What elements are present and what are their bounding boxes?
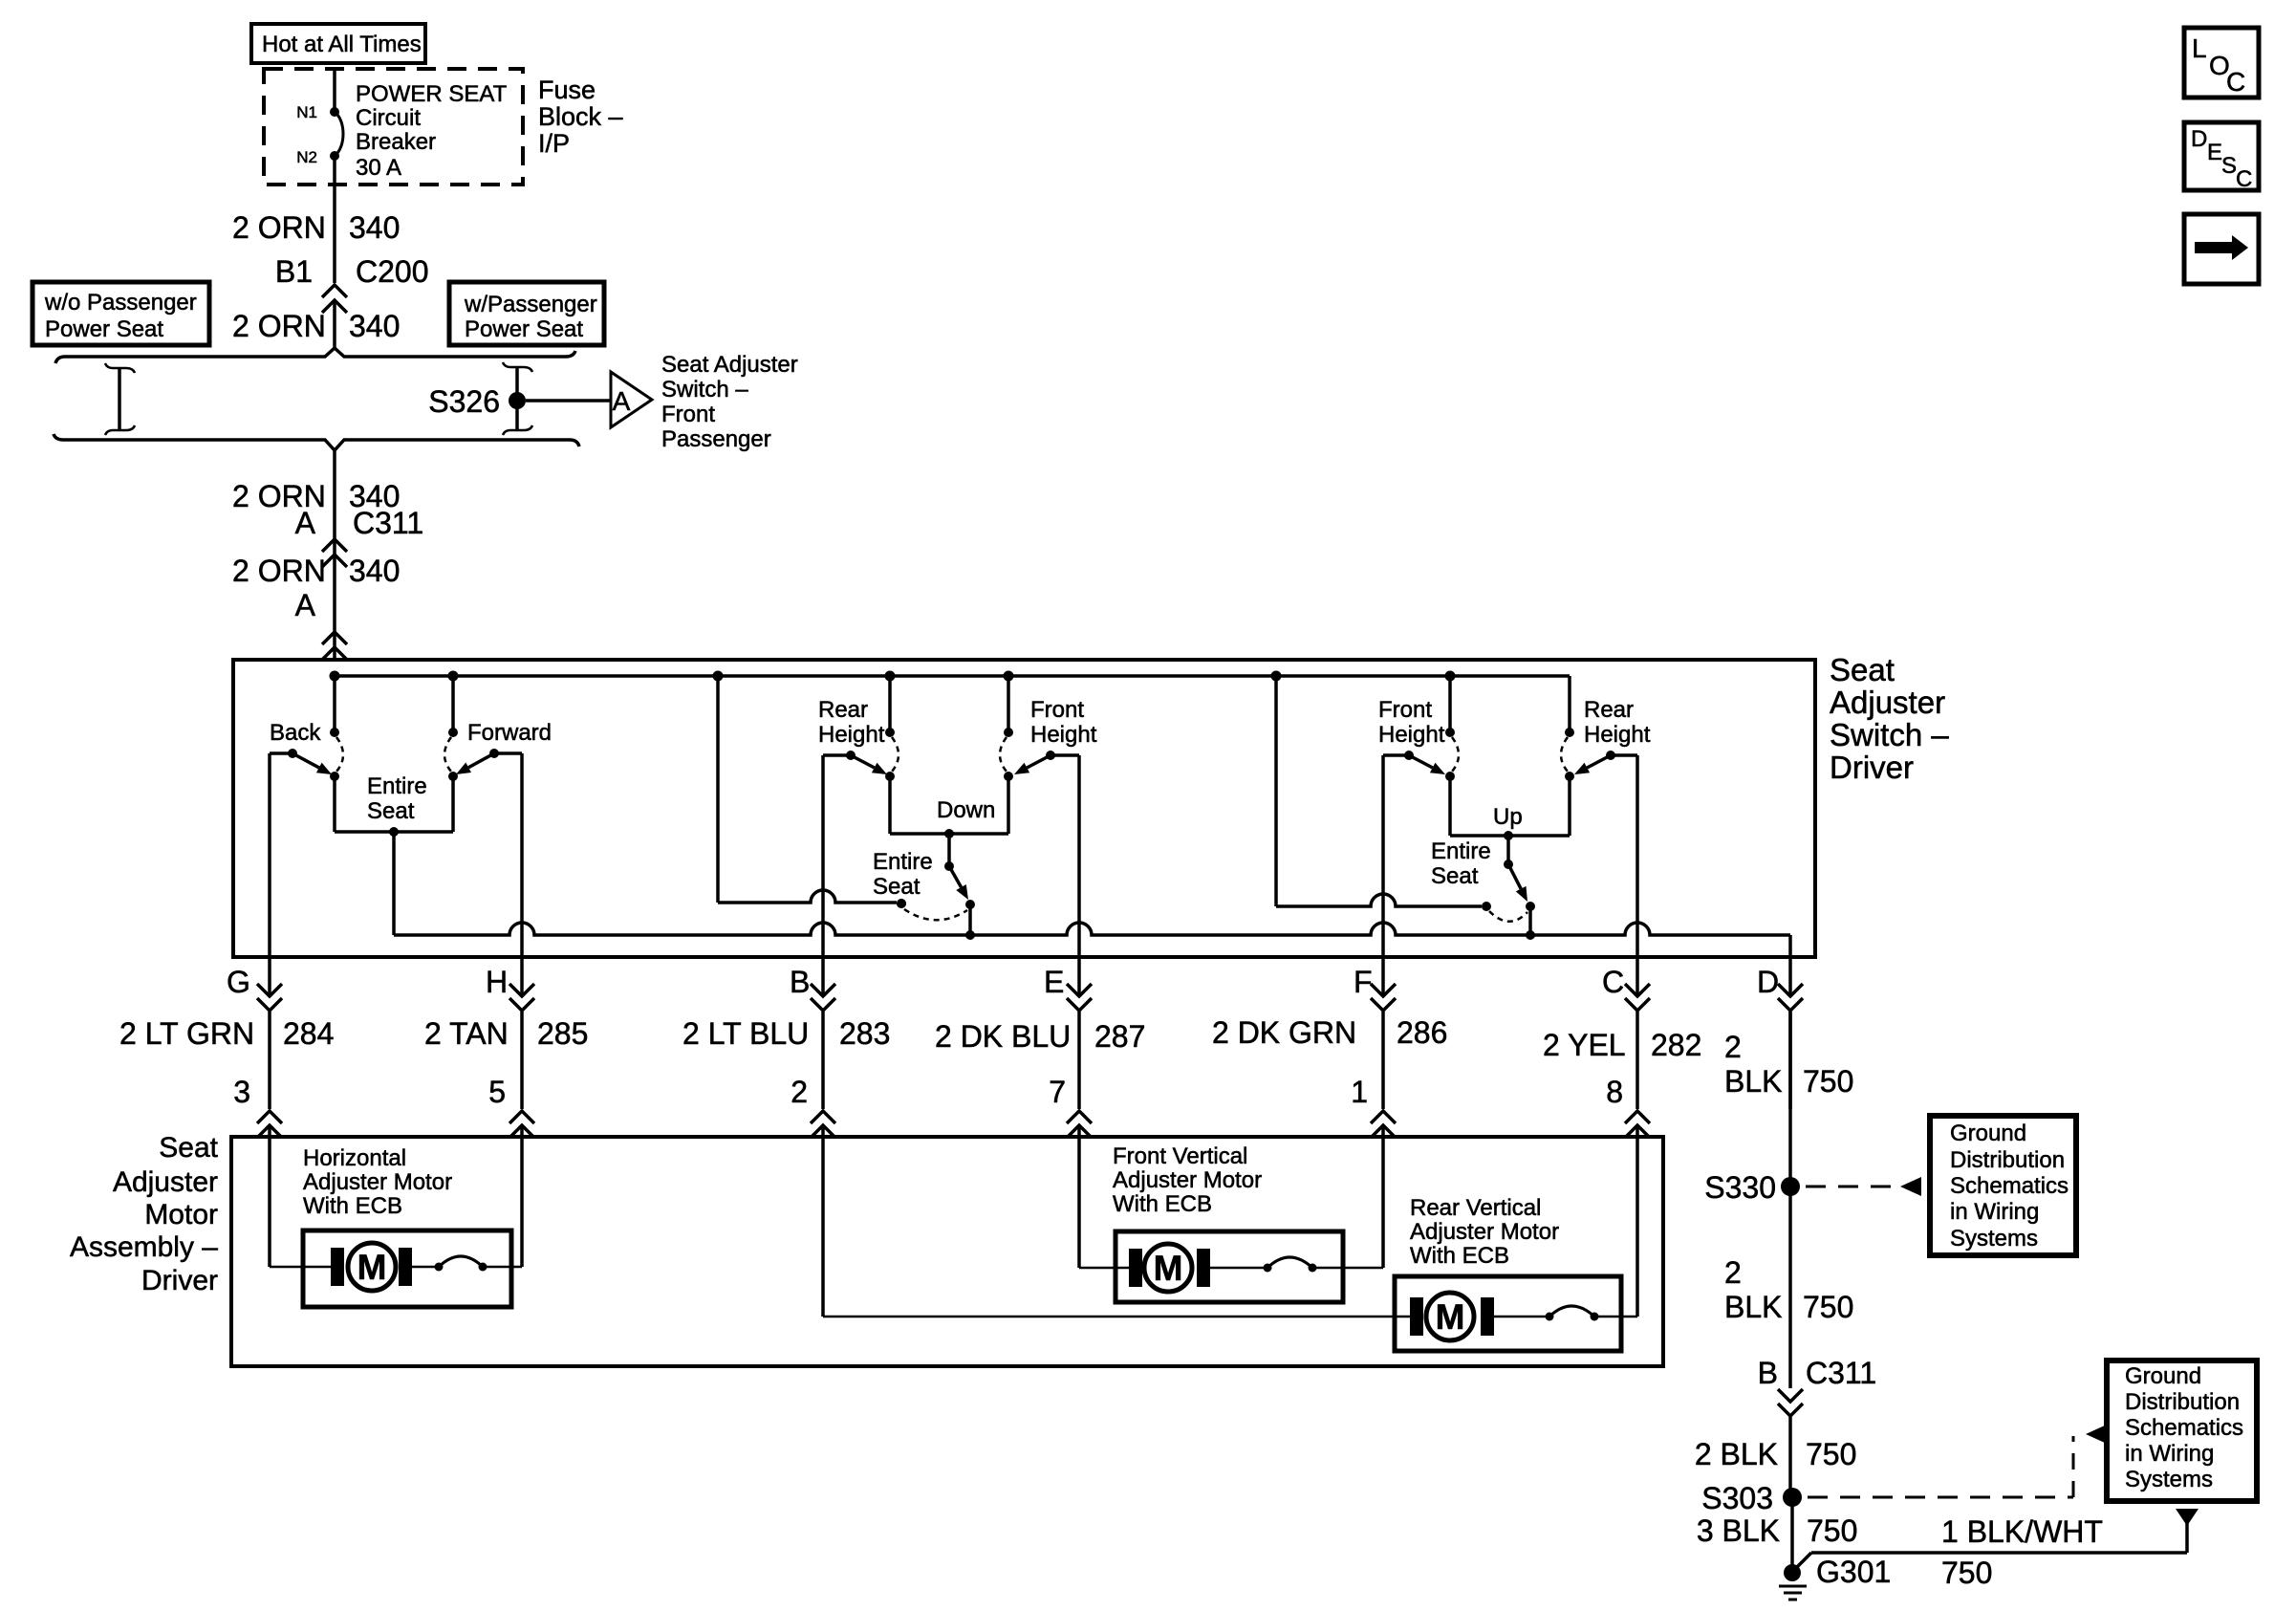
svg-text:Breaker: Breaker: [356, 129, 436, 155]
svg-text:2 LT GRN: 2 LT GRN: [119, 1016, 254, 1051]
svg-text:B1: B1: [275, 254, 313, 289]
svg-text:C311: C311: [1806, 1356, 1876, 1390]
svg-text:F: F: [1354, 965, 1373, 999]
svg-text:Seat Adjuster: Seat Adjuster: [661, 352, 798, 378]
svg-text:Seat: Seat: [1431, 863, 1479, 889]
svg-text:C: C: [1602, 965, 1624, 999]
svg-text:2 DK BLU: 2 DK BLU: [935, 1019, 1071, 1054]
svg-text:750: 750: [1941, 1556, 1992, 1590]
svg-text:2: 2: [1724, 1255, 1742, 1290]
svg-text:Rear: Rear: [818, 697, 868, 723]
svg-text:With ECB: With ECB: [1410, 1243, 1509, 1269]
svg-text:285: 285: [537, 1016, 588, 1051]
svg-text:I/P: I/P: [538, 129, 570, 158]
svg-text:Systems: Systems: [2125, 1467, 2213, 1492]
svg-text:Adjuster: Adjuster: [113, 1166, 218, 1198]
svg-text:L: L: [2192, 33, 2207, 63]
svg-text:Schematics: Schematics: [2125, 1415, 2243, 1441]
svg-text:Down: Down: [937, 797, 995, 823]
svg-text:3 BLK: 3 BLK: [1697, 1513, 1780, 1548]
svg-text:Rear Vertical: Rear Vertical: [1410, 1195, 1541, 1221]
svg-text:Seat: Seat: [159, 1132, 218, 1164]
svg-text:2 LT BLU: 2 LT BLU: [682, 1016, 809, 1051]
svg-text:D: D: [1757, 965, 1779, 999]
svg-text:Motor: Motor: [144, 1199, 218, 1230]
svg-text:M: M: [357, 1248, 387, 1287]
svg-text:340: 340: [349, 309, 400, 343]
svg-text:C311: C311: [353, 506, 423, 540]
svg-text:With ECB: With ECB: [303, 1193, 402, 1219]
svg-text:340: 340: [349, 210, 400, 245]
svg-text:3: 3: [233, 1075, 250, 1109]
svg-text:Power Seat: Power Seat: [45, 316, 163, 342]
svg-text:Circuit: Circuit: [356, 105, 421, 131]
svg-text:S330: S330: [1704, 1170, 1776, 1205]
svg-text:G301: G301: [1816, 1555, 1891, 1589]
svg-text:C: C: [2226, 67, 2245, 97]
svg-text:S: S: [2221, 153, 2237, 179]
svg-text:284: 284: [283, 1016, 334, 1051]
svg-text:M: M: [1436, 1297, 1465, 1337]
svg-text:Driver: Driver: [141, 1265, 218, 1296]
svg-text:Height: Height: [1584, 722, 1651, 748]
svg-text:2 DK GRN: 2 DK GRN: [1212, 1015, 1356, 1050]
svg-text:1: 1: [1351, 1075, 1368, 1109]
svg-text:2 BLK: 2 BLK: [1695, 1437, 1778, 1471]
svg-text:287: 287: [1094, 1019, 1145, 1054]
svg-text:Block –: Block –: [538, 102, 623, 131]
svg-text:Distribution: Distribution: [1950, 1147, 2065, 1173]
svg-text:N1: N1: [296, 103, 317, 121]
svg-text:2 ORN: 2 ORN: [232, 554, 326, 588]
svg-text:BLK: BLK: [1724, 1290, 1782, 1324]
svg-text:30 A: 30 A: [356, 155, 401, 181]
svg-text:Back: Back: [270, 720, 321, 746]
svg-text:in Wiring: in Wiring: [2125, 1441, 2214, 1467]
svg-text:Switch –: Switch –: [1830, 717, 1949, 752]
svg-text:Height: Height: [1378, 722, 1445, 748]
svg-text:750: 750: [1803, 1064, 1853, 1099]
svg-text:Front Vertical: Front Vertical: [1113, 1143, 1247, 1169]
svg-text:A: A: [295, 588, 316, 622]
svg-text:Distribution: Distribution: [2125, 1389, 2240, 1415]
svg-text:S303: S303: [1701, 1481, 1773, 1515]
svg-text:G: G: [227, 965, 250, 999]
svg-text:Front: Front: [1378, 697, 1432, 723]
svg-text:Schematics: Schematics: [1950, 1173, 2069, 1199]
svg-text:Rear: Rear: [1584, 697, 1634, 723]
svg-text:C200: C200: [356, 254, 429, 289]
svg-text:E: E: [2207, 140, 2222, 165]
svg-text:With ECB: With ECB: [1113, 1191, 1212, 1217]
svg-text:340: 340: [349, 554, 400, 588]
svg-text:2: 2: [1724, 1030, 1742, 1064]
svg-text:286: 286: [1397, 1015, 1447, 1050]
svg-text:A: A: [295, 506, 316, 540]
svg-text:Passenger: Passenger: [661, 426, 771, 452]
svg-text:2 ORN: 2 ORN: [232, 309, 326, 343]
svg-text:Adjuster: Adjuster: [1830, 685, 1945, 720]
svg-text:Height: Height: [1030, 722, 1097, 748]
svg-text:Ground: Ground: [1950, 1121, 2026, 1146]
svg-text:Adjuster Motor: Adjuster Motor: [1113, 1167, 1262, 1193]
svg-text:D: D: [2191, 126, 2207, 152]
svg-text:283: 283: [839, 1016, 890, 1051]
svg-text:w/Passenger: w/Passenger: [464, 292, 597, 317]
svg-text:Entire: Entire: [1431, 838, 1491, 864]
svg-text:2: 2: [791, 1075, 808, 1109]
svg-text:282: 282: [1651, 1028, 1701, 1062]
svg-text:A: A: [613, 386, 631, 416]
svg-text:Assembly –: Assembly –: [70, 1231, 218, 1263]
svg-text:Entire: Entire: [367, 773, 427, 799]
svg-text:5: 5: [488, 1075, 506, 1109]
svg-text:B: B: [1758, 1356, 1778, 1390]
svg-text:Seat: Seat: [873, 874, 921, 900]
svg-text:Switch –: Switch –: [661, 377, 748, 403]
svg-text:2 ORN: 2 ORN: [232, 210, 326, 245]
svg-text:POWER SEAT: POWER SEAT: [356, 81, 508, 107]
svg-text:M: M: [1154, 1249, 1183, 1288]
svg-text:Adjuster Motor: Adjuster Motor: [1410, 1219, 1559, 1245]
svg-text:BLK: BLK: [1724, 1064, 1782, 1099]
svg-text:2 YEL: 2 YEL: [1543, 1028, 1626, 1062]
svg-text:2 TAN: 2 TAN: [424, 1016, 509, 1051]
svg-text:H: H: [486, 965, 508, 999]
svg-text:Entire: Entire: [873, 849, 933, 875]
svg-text:Hot at All Times: Hot at All Times: [262, 32, 422, 57]
svg-text:Ground: Ground: [2125, 1363, 2201, 1389]
svg-text:B: B: [790, 965, 810, 999]
svg-text:Seat: Seat: [1830, 652, 1895, 687]
svg-text:Forward: Forward: [467, 720, 552, 746]
svg-text:750: 750: [1803, 1290, 1853, 1324]
svg-text:8: 8: [1606, 1075, 1623, 1109]
svg-text:in Wiring: in Wiring: [1950, 1199, 2039, 1225]
svg-text:Systems: Systems: [1950, 1226, 2038, 1252]
svg-text:Up: Up: [1493, 804, 1523, 830]
svg-text:1 BLK/WHT: 1 BLK/WHT: [1941, 1514, 2103, 1549]
svg-text:Adjuster Motor: Adjuster Motor: [303, 1169, 452, 1195]
svg-text:Front: Front: [1030, 697, 1084, 723]
svg-text:7: 7: [1049, 1075, 1066, 1109]
svg-text:750: 750: [1806, 1437, 1856, 1471]
svg-text:N2: N2: [296, 148, 317, 166]
svg-text:Horizontal: Horizontal: [303, 1145, 406, 1171]
svg-text:Height: Height: [818, 722, 885, 748]
svg-text:750: 750: [1807, 1513, 1857, 1548]
svg-text:Front: Front: [661, 402, 715, 427]
svg-text:C: C: [2236, 166, 2252, 192]
svg-text:Power Seat: Power Seat: [465, 316, 583, 342]
svg-text:Fuse: Fuse: [538, 76, 596, 104]
svg-text:S326: S326: [428, 384, 500, 419]
svg-text:E: E: [1044, 965, 1064, 999]
svg-text:Seat: Seat: [367, 798, 415, 824]
svg-text:Driver: Driver: [1830, 750, 1914, 785]
svg-text:w/o Passenger: w/o Passenger: [44, 290, 197, 316]
